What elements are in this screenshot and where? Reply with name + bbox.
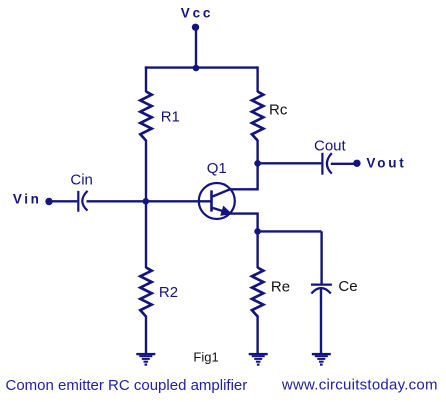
- svg-text:Fig1: Fig1: [193, 350, 218, 365]
- svg-text:www.circuitstoday.com: www.circuitstoday.com: [281, 377, 438, 394]
- svg-text:R2: R2: [159, 284, 178, 301]
- svg-text:Vin: Vin: [13, 191, 42, 206]
- svg-text:Vout: Vout: [366, 156, 406, 171]
- svg-text:R1: R1: [161, 108, 180, 125]
- svg-text:Cout: Cout: [314, 137, 347, 154]
- svg-text:Comon emitter RC coupled ampli: Comon emitter RC coupled amplifier: [6, 377, 248, 394]
- svg-text:Re: Re: [271, 279, 290, 296]
- svg-text:Q1: Q1: [207, 160, 227, 177]
- svg-text:Vcc: Vcc: [181, 5, 213, 20]
- svg-text:Ce: Ce: [338, 278, 357, 295]
- svg-text:Cin: Cin: [70, 171, 93, 188]
- svg-text:Rc: Rc: [269, 102, 288, 119]
